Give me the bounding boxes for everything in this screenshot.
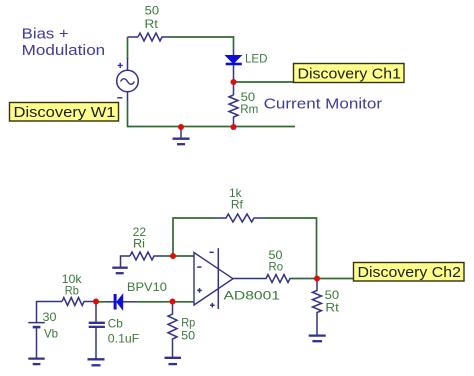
svg-text:Rb: Rb	[65, 284, 79, 298]
svg-text:Cb: Cb	[108, 317, 123, 331]
svg-text:Modulation: Modulation	[22, 42, 106, 59]
svg-text:50: 50	[181, 329, 195, 343]
svg-text:Discovery Ch1: Discovery Ch1	[298, 66, 402, 83]
svg-text:Ro: Ro	[269, 260, 284, 274]
svg-text:Bias +: Bias +	[22, 25, 69, 42]
svg-text:LED: LED	[245, 52, 268, 66]
svg-text:50: 50	[145, 4, 160, 18]
svg-text:Vb: Vb	[44, 327, 58, 341]
svg-text:Rt: Rt	[145, 17, 159, 31]
svg-text:BPV10: BPV10	[127, 280, 167, 294]
svg-text:Discovery Ch2: Discovery Ch2	[358, 264, 462, 281]
svg-text:Current Monitor: Current Monitor	[264, 95, 382, 112]
svg-text:Discovery W1: Discovery W1	[14, 104, 116, 121]
svg-text:Rf: Rf	[231, 198, 244, 212]
svg-text:0.1uF: 0.1uF	[108, 332, 140, 346]
svg-text:Rm: Rm	[240, 102, 258, 116]
svg-text:30: 30	[43, 310, 57, 324]
svg-text:Rp: Rp	[181, 316, 195, 330]
svg-text:Ri: Ri	[133, 236, 145, 250]
svg-text:AD8001: AD8001	[224, 289, 281, 303]
svg-text:Rt: Rt	[325, 300, 339, 314]
